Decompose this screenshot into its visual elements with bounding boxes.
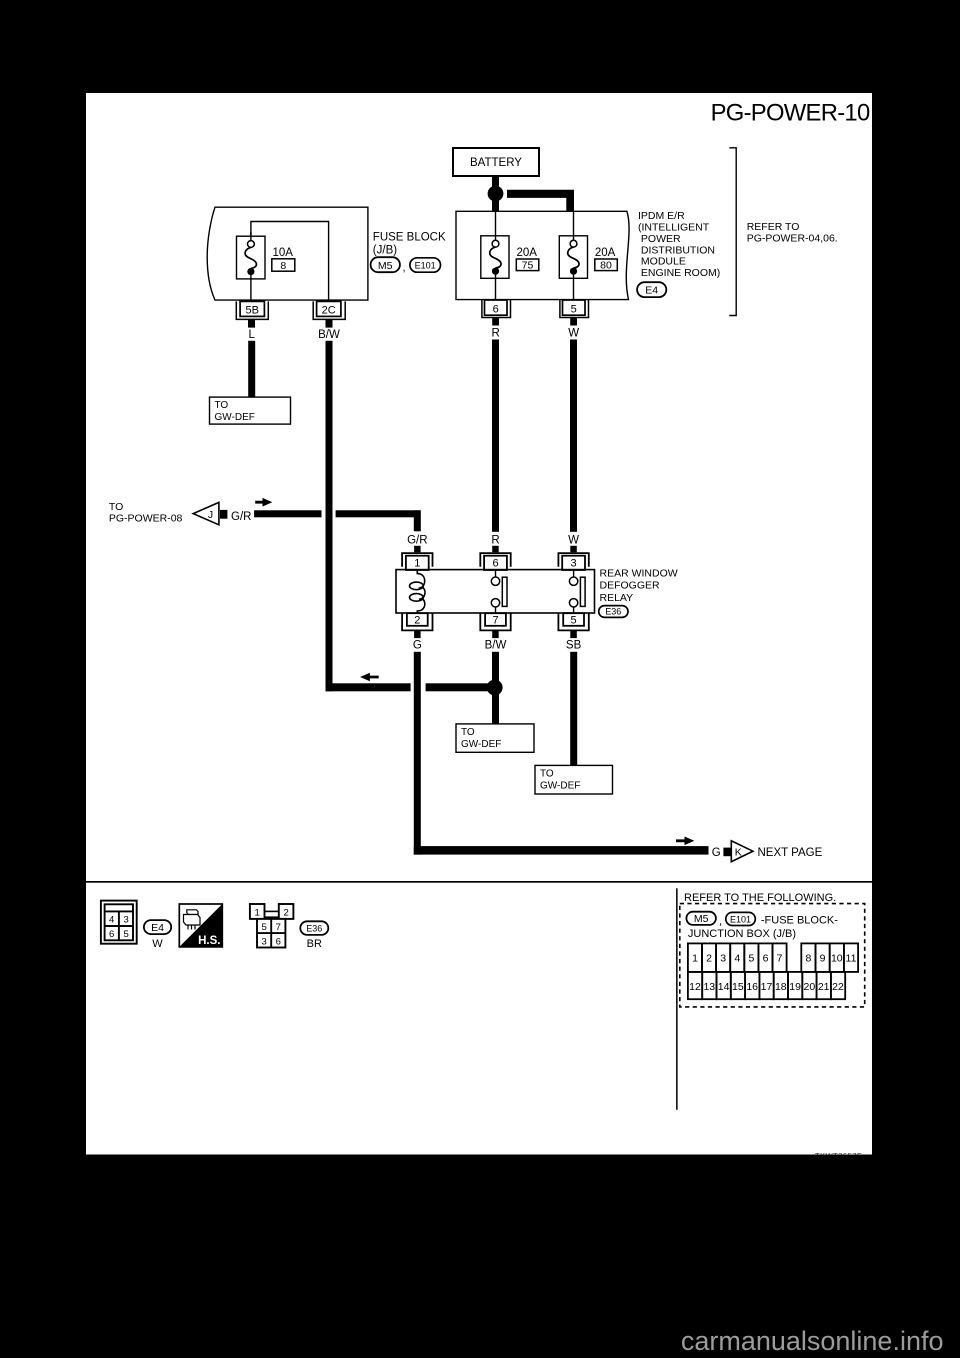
J/B internal bus wire <box>251 222 329 301</box>
svg-text:carmanualsonline.info: carmanualsonline.info <box>681 1326 944 1356</box>
svg-text:E4: E4 <box>645 285 658 297</box>
wire G vertical run <box>414 652 421 855</box>
flow arrow left B/W <box>360 673 379 682</box>
wire B/W vertical run <box>326 341 333 692</box>
svg-text:SB: SB <box>566 639 582 651</box>
connector pin 5 IPDM <box>560 300 589 326</box>
svg-text:G/R: G/R <box>231 511 251 523</box>
TO GW-DEF box 1 <box>210 397 291 424</box>
junction node battery feed <box>488 186 504 202</box>
connector E101 oval label <box>410 258 441 272</box>
svg-text:L: L <box>248 329 255 341</box>
svg-text:M5: M5 <box>378 260 393 272</box>
svg-text:5: 5 <box>571 615 577 627</box>
svg-text:5: 5 <box>748 953 754 965</box>
wire junction node to fuse 75 <box>492 194 499 212</box>
svg-text:E101: E101 <box>730 914 751 924</box>
svg-text:80: 80 <box>600 260 612 272</box>
svg-text:G: G <box>413 639 422 651</box>
svg-text:W: W <box>152 938 163 950</box>
fuse number box 80 <box>595 259 618 272</box>
svg-text:R: R <box>491 534 499 546</box>
wire G horizontal run to next page <box>414 846 709 855</box>
relay contact pins 6-7 <box>491 570 507 613</box>
svg-text:W: W <box>568 328 579 340</box>
svg-text:J: J <box>208 509 213 521</box>
svg-text:12: 12 <box>689 981 701 993</box>
flow arrow right G/R <box>255 498 272 507</box>
wire R IPDM to relay <box>492 340 499 532</box>
svg-text:2C: 2C <box>322 305 336 317</box>
connector pin 2 relay <box>402 613 432 638</box>
connector E36 oval legend <box>300 921 328 935</box>
connector M5 oval legend <box>686 912 716 926</box>
wire SB down to GW-DEF <box>570 652 577 766</box>
svg-text:6: 6 <box>492 558 498 570</box>
svg-text:1: 1 <box>414 558 420 570</box>
svg-text:W: W <box>568 534 579 546</box>
mask below page edge <box>700 1155 960 1171</box>
svg-text:6: 6 <box>276 936 281 947</box>
svg-text:G: G <box>712 847 721 859</box>
legend dashed box <box>680 904 865 1007</box>
wire stub relay pin 1 <box>414 546 421 553</box>
fuse 10A 8 <box>237 232 266 300</box>
svg-text:E4: E4 <box>151 922 164 934</box>
svg-text:10A: 10A <box>273 247 294 259</box>
fuse table row 1 cells 8-11 <box>801 943 858 972</box>
svg-text:M5: M5 <box>694 913 709 925</box>
connector pin 5B <box>236 301 268 327</box>
svg-text:5: 5 <box>124 929 129 940</box>
connector pin 5 relay <box>558 613 588 638</box>
svg-text:NEXT PAGE: NEXT PAGE <box>758 847 823 859</box>
svg-text:JUNCTION BOX (J/B): JUNCTION BOX (J/B) <box>688 928 796 940</box>
svg-text:R: R <box>492 328 500 340</box>
wire W IPDM to relay <box>570 340 577 532</box>
svg-text:7: 7 <box>276 922 281 933</box>
wire battery to junction node <box>492 176 499 195</box>
connector pin 1 relay <box>402 553 432 570</box>
wire stub relay pin 6 <box>492 546 499 553</box>
node square G/R <box>220 510 227 519</box>
connector E4 oval label <box>637 282 666 297</box>
svg-text:5B: 5B <box>245 305 258 317</box>
wire stub relay pin 3 <box>570 546 577 553</box>
relay contact pins 3-5 <box>569 570 585 613</box>
svg-text:2: 2 <box>283 908 288 919</box>
connector E36 oval label relay <box>599 606 628 618</box>
svg-text:20A: 20A <box>595 247 616 259</box>
svg-text:5: 5 <box>571 303 577 315</box>
connector E4 pin grid <box>101 901 137 944</box>
svg-text:11: 11 <box>846 953 857 965</box>
svg-text:E36: E36 <box>306 924 322 934</box>
fuse number box 75 <box>516 259 539 272</box>
svg-text:3: 3 <box>571 558 577 570</box>
off-page arrow K <box>731 841 753 862</box>
wire B/W horizontal right segment <box>426 683 495 691</box>
svg-text:8: 8 <box>280 260 286 272</box>
page background <box>86 93 872 1155</box>
svg-text:7: 7 <box>777 953 783 965</box>
connector E101 oval legend <box>726 912 756 925</box>
connector pin 2C <box>313 301 345 327</box>
flow arrow right G <box>676 837 694 846</box>
svg-text:1: 1 <box>255 908 260 919</box>
wire B/W pin 7 down to GW-DEF <box>492 652 499 724</box>
fuse table row 1 cells 1-7 <box>688 943 787 972</box>
svg-text:PG-POWER-10: PG-POWER-10 <box>711 100 870 127</box>
wire G/R down to relay pin 1 <box>414 510 421 531</box>
svg-text:B/W: B/W <box>485 639 507 651</box>
svg-text:REFER TO THE FOLLOWING.: REFER TO THE FOLLOWING. <box>684 892 836 904</box>
fuse number box 8 <box>272 259 295 272</box>
svg-text:5: 5 <box>261 922 266 933</box>
svg-text:14: 14 <box>718 981 730 993</box>
svg-text:13: 13 <box>703 981 715 993</box>
legend divider line <box>676 888 678 1110</box>
svg-text:2: 2 <box>414 615 420 627</box>
svg-text:B/W: B/W <box>318 329 340 341</box>
svg-text:2: 2 <box>706 953 712 965</box>
svg-text:E101: E101 <box>415 261 436 271</box>
wire G/R right segment <box>336 510 421 517</box>
svg-text:16: 16 <box>746 981 758 993</box>
connector M5 oval label <box>371 257 400 272</box>
H.S. symbol <box>179 904 222 947</box>
svg-text:22: 22 <box>832 981 844 993</box>
svg-text:1: 1 <box>692 953 698 965</box>
svg-text:21: 21 <box>818 981 830 993</box>
svg-text:G/R: G/R <box>407 534 427 546</box>
connector pin 7 relay <box>480 613 510 638</box>
svg-text:3: 3 <box>261 936 266 947</box>
svg-text:,: , <box>719 916 722 928</box>
wire G/R left segment <box>254 510 321 517</box>
svg-text:BATTERY: BATTERY <box>470 157 522 169</box>
svg-text:7: 7 <box>492 615 498 627</box>
svg-text:4: 4 <box>734 953 740 965</box>
svg-text:8: 8 <box>805 953 811 965</box>
wire L to GW-DEF <box>248 341 255 397</box>
TO GW-DEF box 2 <box>456 724 534 752</box>
fuse 20A 75 <box>481 211 509 299</box>
node square G <box>723 848 730 857</box>
wire B/W horizontal left segment <box>326 683 411 691</box>
junction node B/W <box>487 680 503 696</box>
connector pin 6 relay <box>480 553 510 570</box>
off-page arrow J <box>193 502 219 524</box>
svg-text:4: 4 <box>109 914 114 925</box>
svg-text:75: 75 <box>522 260 534 272</box>
fuse block J/B box outline <box>207 207 368 300</box>
svg-text:6: 6 <box>493 303 499 315</box>
svg-text:9: 9 <box>820 953 826 965</box>
TO GW-DEF box 3 <box>535 765 613 794</box>
svg-text:20A: 20A <box>517 247 538 259</box>
fuse table row 2 cells 12-22 <box>688 972 845 999</box>
battery B1 <box>453 148 539 176</box>
bracket refer-to <box>729 148 736 316</box>
svg-text:15: 15 <box>732 981 744 993</box>
svg-text:18: 18 <box>775 981 787 993</box>
connector pin 6 IPDM <box>482 300 511 326</box>
relay box outline <box>396 570 595 613</box>
svg-text:3: 3 <box>124 914 129 925</box>
svg-text:17: 17 <box>761 981 773 993</box>
svg-text:E36: E36 <box>605 607 621 617</box>
svg-text:-FUSE BLOCK-: -FUSE BLOCK- <box>761 914 838 926</box>
svg-text:6: 6 <box>763 953 769 965</box>
svg-text:10: 10 <box>831 953 843 965</box>
svg-text:3: 3 <box>720 953 726 965</box>
svg-text:K: K <box>735 847 742 859</box>
connector E4 oval legend <box>144 920 171 934</box>
fuse 20A 80 <box>559 211 587 299</box>
wire junction node to fuse 80 <box>507 190 574 212</box>
IPDM E/R box outline <box>456 211 629 299</box>
connector pin 3 relay <box>558 553 588 570</box>
separator line <box>86 881 872 883</box>
svg-text:,: , <box>403 262 406 274</box>
svg-text:BR: BR <box>307 938 322 950</box>
svg-text:6: 6 <box>109 929 114 940</box>
relay coil <box>410 570 425 613</box>
connector E36 pin diagram <box>250 904 294 948</box>
svg-text:20: 20 <box>804 981 816 993</box>
svg-text:H.S.: H.S. <box>198 935 220 947</box>
svg-text:19: 19 <box>789 981 801 993</box>
